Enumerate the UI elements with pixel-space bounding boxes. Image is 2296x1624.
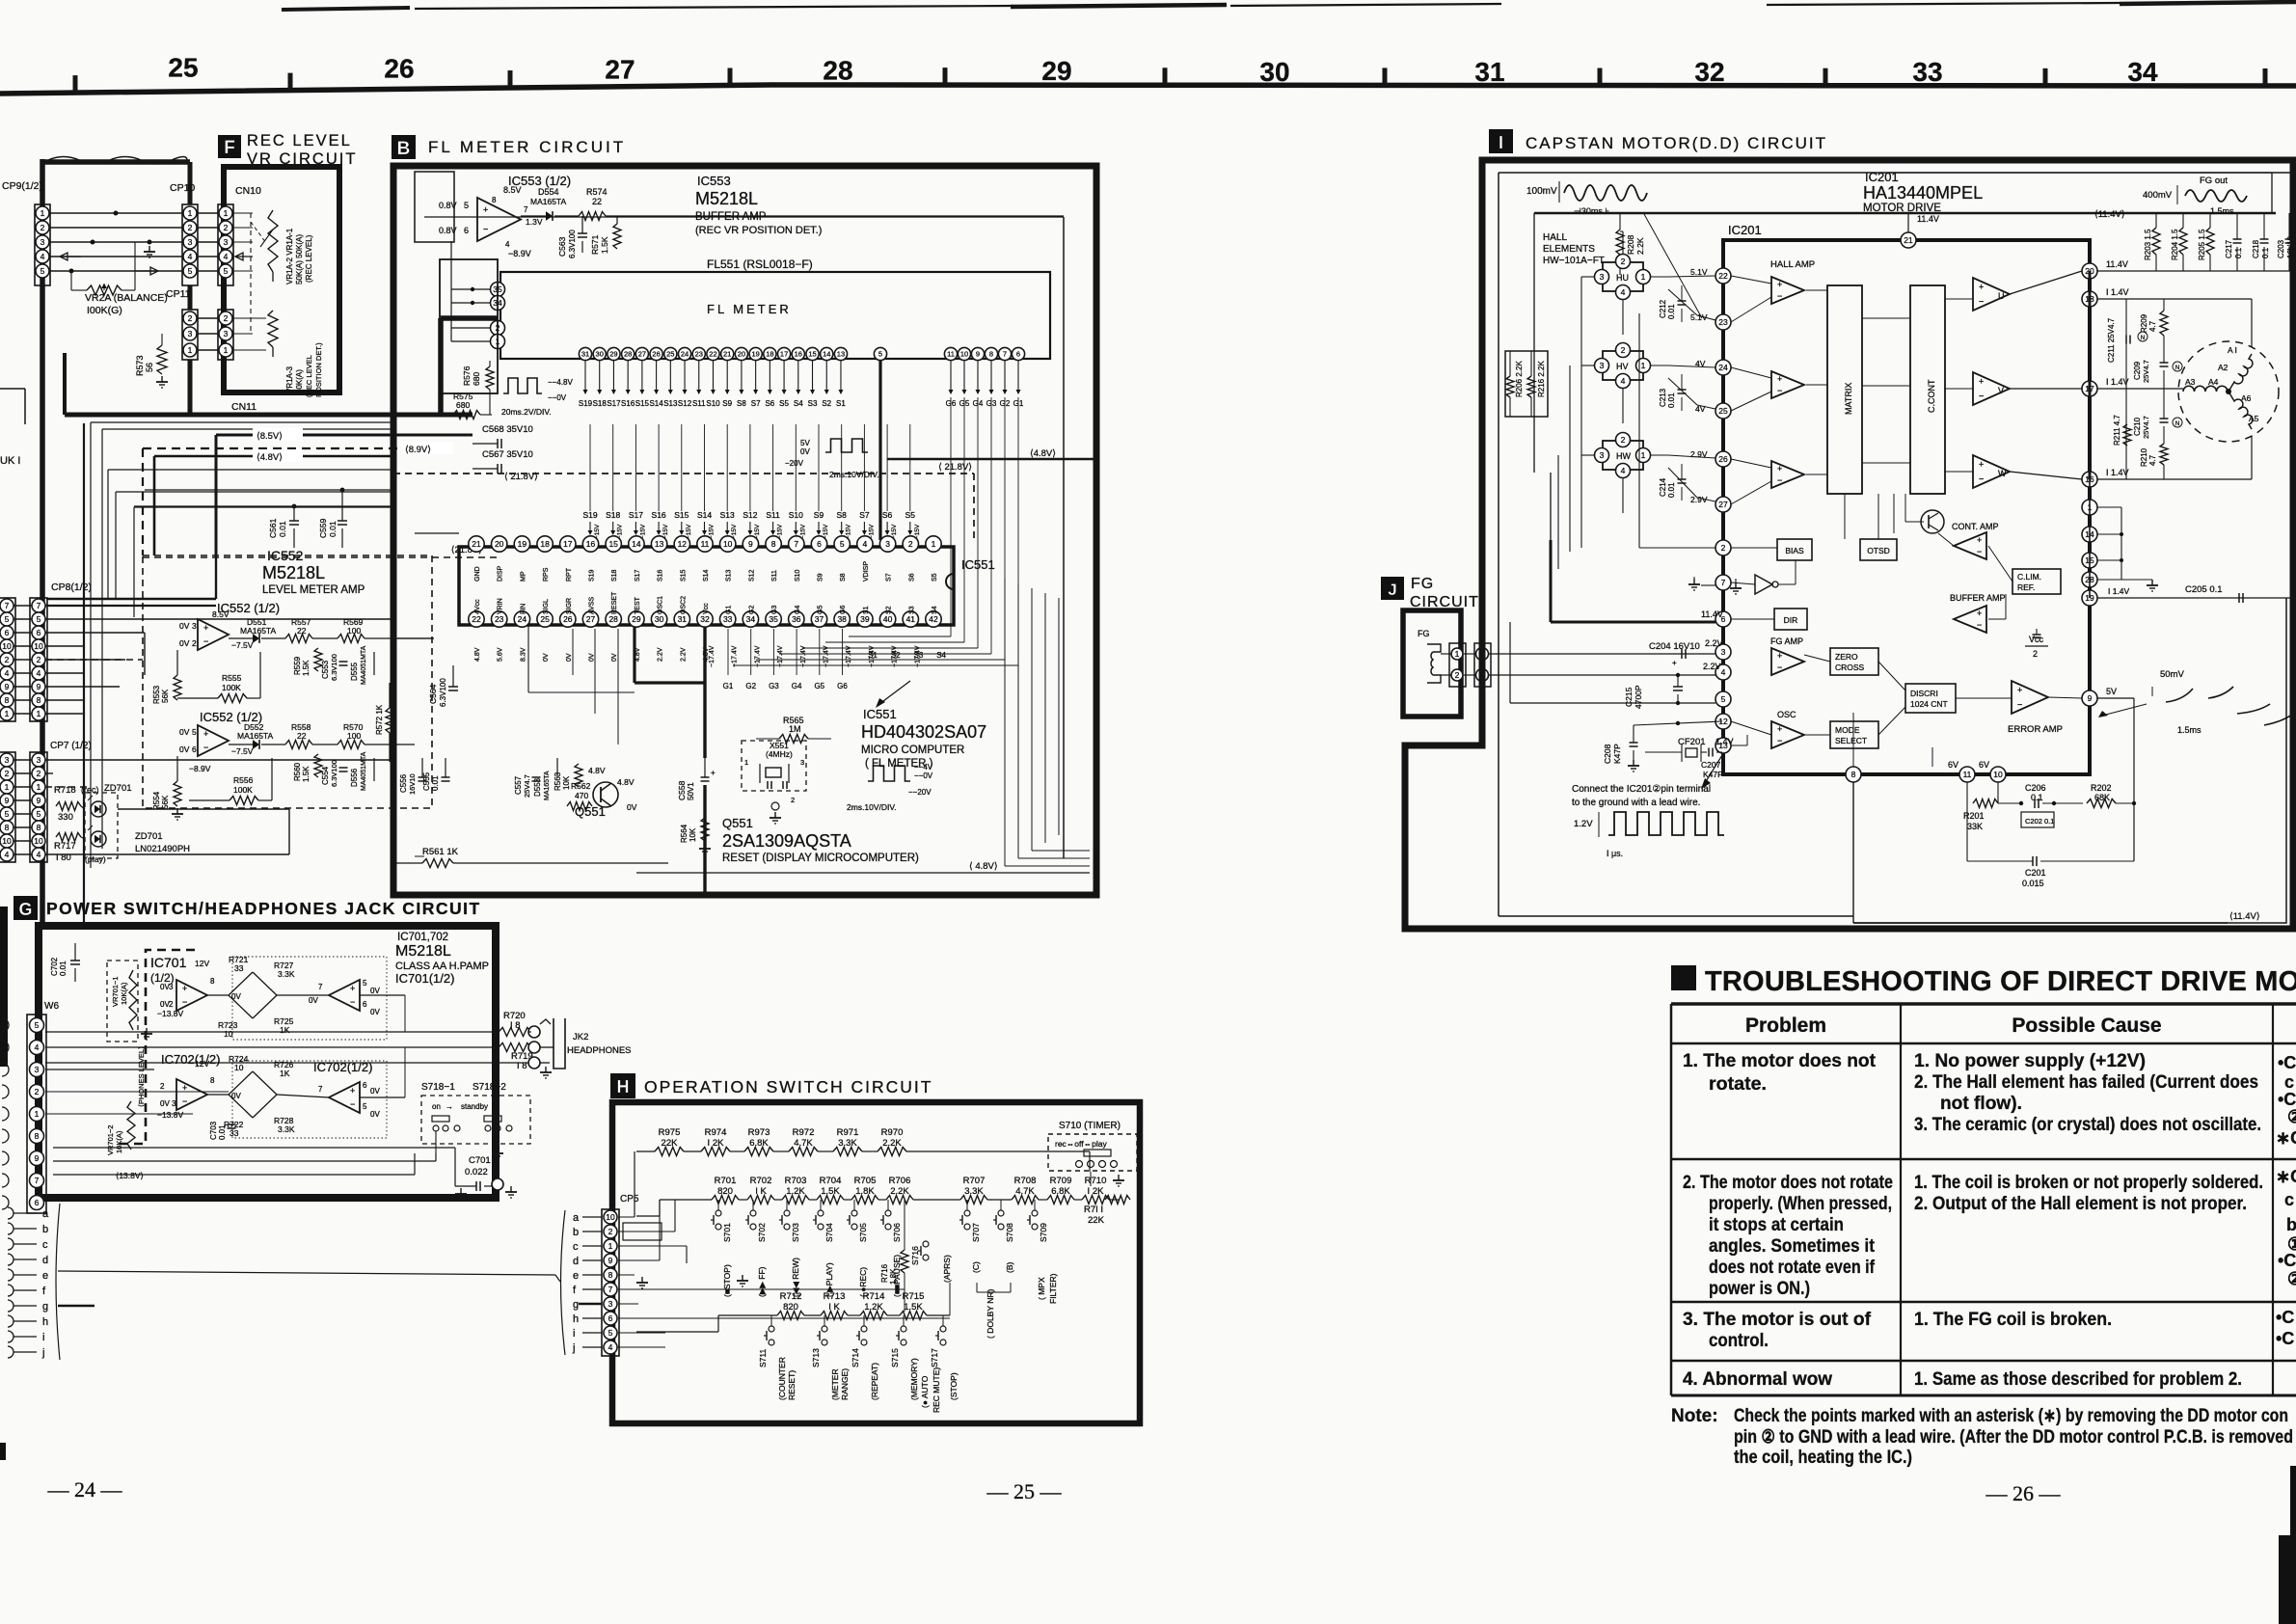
svg-text:C201: C201 <box>2025 868 2046 878</box>
svg-text:2: 2 <box>1455 670 1460 680</box>
capacitor C201 <box>2032 856 2034 866</box>
svg-text:(REC LEVEL): (REC LEVEL) <box>305 234 313 283</box>
svg-text:400mV: 400mV <box>2143 190 2173 201</box>
svg-text:+: + <box>1979 283 1984 292</box>
svg-text:5.6V: 5.6V <box>498 647 504 662</box>
section label G <box>14 896 38 920</box>
svg-text:+: + <box>1777 651 1782 661</box>
svg-text:(4MHz): (4MHz) <box>766 749 793 759</box>
IC551 top pin row <box>469 536 484 552</box>
svg-text:S16: S16 <box>621 399 635 408</box>
svg-text:6: 6 <box>1016 350 1020 359</box>
svg-text:R974: R974 <box>705 1127 727 1138</box>
svg-text:2.2V: 2.2V <box>658 647 664 662</box>
svg-text:−15V: −15V <box>891 524 898 539</box>
svg-text:i: i <box>42 1332 44 1343</box>
wire second row <box>660 1199 712 1201</box>
svg-text:S7: S7 <box>886 573 893 582</box>
hall amp triangles <box>1771 277 1804 304</box>
svg-text:−: − <box>350 1099 355 1109</box>
svg-text:W6: W6 <box>44 1001 59 1012</box>
svg-text:0V: 0V <box>566 653 573 662</box>
thick bus 8.5V <box>216 434 473 437</box>
svg-text:31: 31 <box>1474 57 1504 87</box>
svg-text:•C: •C <box>2276 1308 2294 1327</box>
svg-text:+: + <box>1977 535 1982 545</box>
svg-text:R208: R208 <box>1626 234 1635 255</box>
svg-text:2ms.10V/DIV.: 2ms.10V/DIV. <box>847 802 897 812</box>
svg-text:R710: R710 <box>1085 1176 1107 1186</box>
wires G pins down <box>950 361 952 393</box>
svg-text:2: 2 <box>1721 543 1726 553</box>
svg-text:5: 5 <box>35 1020 40 1030</box>
svg-text:21: 21 <box>723 350 731 359</box>
op-amp IC701a <box>176 980 207 1011</box>
wire pin7 gnd <box>1693 579 1695 584</box>
section label B <box>392 135 416 159</box>
DIR box <box>1774 609 1807 630</box>
svg-text:25V4.7: 25V4.7 <box>523 774 531 798</box>
svg-text:6: 6 <box>464 226 469 235</box>
svg-text:g: g <box>42 1301 48 1313</box>
svg-text:−: − <box>483 224 488 233</box>
svg-text:S711: S711 <box>758 1349 768 1367</box>
svg-text:C556: C556 <box>399 773 408 793</box>
svg-text:C217: C217 <box>2225 239 2233 258</box>
svg-text:G1: G1 <box>723 682 734 690</box>
svg-text:10K(A): 10K(A) <box>120 982 128 1005</box>
svg-text:10K: 10K <box>689 827 697 842</box>
arrow to pin13 <box>1705 755 1722 783</box>
wires motor <box>2251 299 2253 347</box>
troubleshooting heading <box>1671 965 1696 990</box>
svg-text:S6: S6 <box>908 573 915 582</box>
svg-text:−: − <box>1777 475 1782 485</box>
svg-text:e: e <box>573 1270 579 1282</box>
svg-text:0V: 0V <box>627 802 637 812</box>
connector W6 circles <box>27 1015 46 1213</box>
svg-text:G6: G6 <box>837 682 848 690</box>
MODE SELECT box <box>1830 721 1878 748</box>
dashed line CN10-VR <box>250 213 252 333</box>
svg-text:C211 25V4.7: C211 25V4.7 <box>2107 317 2116 363</box>
svg-text:56: 56 <box>145 363 154 372</box>
svg-text:(■STOP): (■STOP) <box>722 1264 732 1297</box>
svg-text:CP9(1/2): CP9(1/2) <box>2 180 42 192</box>
I box inner thin border <box>1499 173 2296 923</box>
svg-text:7: 7 <box>5 601 10 610</box>
svg-text:2: 2 <box>192 638 197 648</box>
svg-text:FG: FG <box>1418 629 1430 638</box>
svg-text:1.4V: 1.4V <box>1715 737 1734 746</box>
svg-text:RPT: RPT <box>566 567 573 582</box>
svg-text:4.7: 4.7 <box>2148 454 2157 466</box>
svg-text:(REPEAT): (REPEAT) <box>870 1363 879 1400</box>
svg-text:20: 20 <box>495 539 504 549</box>
svg-text:5: 5 <box>5 614 10 624</box>
svg-text:50K(A) 50K(A): 50K(A) 50K(A) <box>295 234 304 284</box>
svg-text:−15V: −15V <box>709 524 716 539</box>
svg-text:6: 6 <box>37 628 41 637</box>
svg-text:33: 33 <box>723 614 733 624</box>
svg-text:50V1: 50V1 <box>687 782 695 800</box>
svg-text:2. The motor does not rotate: 2. The motor does not rotate <box>1683 1173 1893 1193</box>
svg-text:13: 13 <box>655 539 664 549</box>
svg-text:CP8(1/2): CP8(1/2) <box>51 582 92 593</box>
svg-text:HW: HW <box>1616 451 1631 461</box>
svg-text:1: 1 <box>224 208 229 218</box>
svg-text:UK I: UK I <box>0 455 20 467</box>
svg-text:8.3V: 8.3V <box>520 647 527 662</box>
svg-text:14: 14 <box>823 350 830 359</box>
svg-text:S702: S702 <box>757 1223 767 1242</box>
svg-text:−17.4V: −17.4V <box>732 645 739 667</box>
arrow left row4 <box>60 253 81 260</box>
svg-text:C209: C209 <box>2133 361 2142 380</box>
svg-text:1.5K: 1.5K <box>600 236 609 254</box>
svg-text:1: 1 <box>932 539 936 549</box>
svg-text:R201: R201 <box>1963 811 1985 821</box>
ZERO CROSS box <box>1830 648 1878 675</box>
connector FG outer <box>1474 643 1491 687</box>
dotted loop IC701 <box>232 957 387 1040</box>
transistor Q551 <box>593 782 618 807</box>
sub rect left of FL <box>440 259 498 393</box>
svg-text:1: 1 <box>5 782 10 792</box>
svg-text:7: 7 <box>1003 350 1007 359</box>
svg-text:S11: S11 <box>766 510 780 520</box>
svg-text:VRIN: VRIN <box>498 598 504 614</box>
svg-text:S7: S7 <box>751 399 761 408</box>
svg-text:HW−101A−FT: HW−101A−FT <box>1543 256 1605 266</box>
svg-text:30: 30 <box>655 614 664 624</box>
svg-text:3: 3 <box>1600 361 1605 370</box>
svg-text:24: 24 <box>1718 363 1728 372</box>
svg-text:A4: A4 <box>2208 377 2219 387</box>
svg-text:LEVEL METER AMP: LEVEL METER AMP <box>262 584 365 596</box>
svg-text:2: 2 <box>608 1227 613 1236</box>
svg-text:10: 10 <box>960 350 968 359</box>
svg-text:7: 7 <box>37 601 41 610</box>
wavy top line <box>42 159 190 165</box>
svg-text:−15V: −15V <box>754 524 761 539</box>
svg-text:(● AUTO: (● AUTO <box>920 1375 930 1408</box>
svg-text:0V: 0V <box>611 653 618 662</box>
svg-text:R564: R564 <box>680 824 689 843</box>
svg-text:VR701−1: VR701−1 <box>111 977 120 1007</box>
svg-text:(COUNTER: (COUNTER <box>777 1357 787 1400</box>
svg-text:3: 3 <box>41 237 45 247</box>
svg-text:15: 15 <box>808 350 816 359</box>
svg-text:W: W <box>1998 469 2007 478</box>
svg-text:31: 31 <box>678 614 688 624</box>
svg-text:R210: R210 <box>2140 447 2148 467</box>
motor windings <box>2178 341 2279 442</box>
svg-text:( DOLBY NR): ( DOLBY NR) <box>986 1289 995 1339</box>
svg-text:angles. Sometimes it: angles. Sometimes it <box>1709 1236 1876 1257</box>
thick bus D <box>441 315 498 321</box>
svg-text:VR1A-2 VR1A-1: VR1A-2 VR1A-1 <box>285 228 294 284</box>
svg-text:−17.4V: −17.4V <box>777 645 784 667</box>
svg-text:(pIay): (pIay) <box>85 854 106 864</box>
black blob page edge <box>0 1443 6 1460</box>
IC201 right pins <box>2082 263 2097 279</box>
svg-text:15: 15 <box>608 539 618 549</box>
svg-text:OPERATION SWITCH CIRCUIT: OPERATION SWITCH CIRCUIT <box>644 1077 932 1096</box>
label 4.8V arrow <box>253 449 303 462</box>
svg-text:OTSD: OTSD <box>1867 546 1890 555</box>
svg-text:10: 10 <box>224 1029 233 1039</box>
svg-text:40: 40 <box>883 614 893 624</box>
svg-text:C559: C559 <box>318 518 328 538</box>
svg-text:−17.4V: −17.4V <box>709 645 716 667</box>
J box border <box>1403 610 1461 717</box>
partial box left edge <box>0 388 25 390</box>
svg-text:C702: C702 <box>50 957 59 976</box>
svg-text:5: 5 <box>1721 694 1726 704</box>
svg-text:IC553: IC553 <box>697 174 731 188</box>
svg-text:3: 3 <box>1600 450 1605 460</box>
svg-text:R715: R715 <box>903 1291 925 1302</box>
svg-text:S17: S17 <box>629 510 643 520</box>
svg-text:R972: R972 <box>793 1127 815 1138</box>
svg-text:17: 17 <box>563 539 573 549</box>
svg-text:−: − <box>1977 547 1982 556</box>
svg-text:18: 18 <box>540 539 550 549</box>
svg-text:FG AMP: FG AMP <box>1770 636 1803 646</box>
svg-text:8: 8 <box>5 823 10 832</box>
svg-text:R702: R702 <box>750 1176 772 1186</box>
svg-text:S8: S8 <box>836 510 847 520</box>
svg-text:R970: R970 <box>881 1127 904 1138</box>
MATRIX box <box>1827 285 1862 494</box>
svg-text:12V: 12V <box>195 959 209 968</box>
svg-text:2: 2 <box>188 313 193 323</box>
svg-text:FG out: FG out <box>2200 176 2228 186</box>
svg-text:the coil, heating the IC.): the coil, heating the IC.) <box>1734 1448 1912 1468</box>
svg-text:I 1.4V: I 1.4V <box>2106 468 2129 477</box>
svg-text:S18: S18 <box>593 399 608 408</box>
IC201 bottom pins <box>1846 767 1861 782</box>
svg-text:56K: 56K <box>161 795 170 809</box>
svg-text:100mV: 100mV <box>1526 186 1557 197</box>
svg-text:9: 9 <box>35 1153 40 1163</box>
svg-text:FL METER CIRCUIT: FL METER CIRCUIT <box>428 138 626 156</box>
BUFFER amp triangle <box>1954 606 1986 633</box>
svg-text:C205 0.1: C205 0.1 <box>2185 584 2223 595</box>
svg-text:−−0V: −−0V <box>548 393 567 402</box>
svg-text:c: c <box>42 1239 48 1251</box>
svg-text:F: F <box>224 138 235 158</box>
svg-text:4Vcc: 4Vcc <box>474 599 481 614</box>
svg-text:S17: S17 <box>607 399 621 408</box>
wires S pins down <box>584 361 586 393</box>
svg-text:13: 13 <box>837 350 845 359</box>
svg-text:28: 28 <box>823 55 852 85</box>
svg-text:HV: HV <box>1616 362 1629 371</box>
svg-text:−7.5V: −7.5V <box>231 640 254 650</box>
wire bottom 4.8V <box>636 872 1090 874</box>
svg-text:2: 2 <box>160 1082 165 1091</box>
svg-text:2.2V: 2.2V <box>1703 662 1721 671</box>
thick bus 4.8V <box>154 455 393 458</box>
svg-text:POSITION DET.): POSITION DET.) <box>314 342 323 397</box>
svg-text:2: 2 <box>37 655 41 664</box>
svg-text:1.2K: 1.2K <box>864 1302 883 1313</box>
svg-text:0V: 0V <box>179 638 190 648</box>
svg-text:1: 1 <box>224 345 229 355</box>
svg-text:11.4V: 11.4V <box>1917 214 1939 224</box>
svg-text:S11: S11 <box>771 570 778 582</box>
potentiometer VR1A-3 <box>268 311 278 347</box>
svg-text:21: 21 <box>472 539 481 549</box>
svg-text:S18: S18 <box>611 569 618 582</box>
svg-text:37: 37 <box>815 614 824 624</box>
svg-text:C567 35V10: C567 35V10 <box>482 449 533 460</box>
svg-text:2: 2 <box>169 1000 174 1009</box>
table outer left <box>1670 1004 1673 1395</box>
svg-text:CROSS: CROSS <box>1835 663 1865 672</box>
svg-text:S9: S9 <box>814 510 824 520</box>
CONT amp triangle <box>1954 532 1986 559</box>
svg-text:5: 5 <box>5 809 10 819</box>
wires B box misc <box>527 625 529 692</box>
wire FG3 <box>1510 702 1715 704</box>
svg-text:R571: R571 <box>590 234 600 255</box>
svg-text:31: 31 <box>581 350 589 359</box>
svg-text:0.01: 0.01 <box>328 521 338 537</box>
svg-text:C701: C701 <box>469 1155 491 1166</box>
svg-text:S9: S9 <box>818 573 824 582</box>
svg-text:HA13440MPEL: HA13440MPEL <box>1863 183 1983 203</box>
svg-text:−: − <box>350 997 355 1007</box>
edge circles CP8 <box>0 598 15 721</box>
svg-text:−: − <box>1777 291 1782 301</box>
svg-text:IC702(1/2): IC702(1/2) <box>313 1060 372 1074</box>
svg-text:28: 28 <box>608 614 618 624</box>
svg-text:S1: S1 <box>868 651 878 660</box>
svg-text:FIN: FIN <box>520 604 527 614</box>
svg-text:1: 1 <box>1455 649 1460 659</box>
svg-text:−17.4V: −17.4V <box>800 645 807 667</box>
svg-text:0V 3: 0V 3 <box>160 1099 176 1108</box>
thick bus B <box>65 413 473 418</box>
wire rows mid <box>46 598 216 600</box>
svg-text:S6: S6 <box>882 510 893 520</box>
svg-text:11: 11 <box>701 539 710 549</box>
svg-text:rec⇔off⇔play: rec⇔off⇔play <box>1055 1139 1107 1149</box>
svg-text:S8: S8 <box>737 399 746 408</box>
svg-text:IC701,702: IC701,702 <box>397 932 448 943</box>
wire pin5 down <box>878 361 881 540</box>
svg-text:6.3V100: 6.3V100 <box>568 230 577 258</box>
svg-text:J: J <box>1388 581 1396 599</box>
svg-text:1: 1 <box>37 709 41 718</box>
svg-text:2.2V: 2.2V <box>680 647 687 662</box>
svg-text:Check the points marked with a: Check the points marked with an asterisk… <box>1734 1406 2288 1426</box>
FL meter pin 5 <box>874 347 886 360</box>
svg-text:R973: R973 <box>748 1127 770 1138</box>
svg-text:−−4.8V: −−4.8V <box>548 378 573 387</box>
svg-text:R704: R704 <box>820 1176 842 1186</box>
svg-text:Q551: Q551 <box>722 816 753 830</box>
svg-text:10: 10 <box>1993 770 2003 779</box>
svg-text:⟨4.8V⟩: ⟨4.8V⟩ <box>1030 448 1056 459</box>
svg-text:−15V: −15V <box>846 524 852 539</box>
svg-text:−13.8V: −13.8V <box>157 1110 184 1120</box>
svg-text:S13: S13 <box>720 510 735 520</box>
svg-text:— 24 —: — 24 — <box>47 1477 123 1502</box>
svg-text:38: 38 <box>837 614 847 624</box>
svg-text:Note:: Note: <box>1671 1406 1718 1426</box>
svg-text:41: 41 <box>906 614 916 624</box>
svg-text:VDISP: VDISP <box>863 561 870 582</box>
svg-text:4: 4 <box>5 850 10 859</box>
svg-text:S2: S2 <box>822 399 831 408</box>
svg-text:3. The ceramic (or crystal) d: 3. The ceramic (or crystal) does not osc… <box>1914 1115 2261 1135</box>
svg-text:Problem: Problem <box>1745 1015 1826 1037</box>
svg-text:20: 20 <box>738 350 745 359</box>
svg-text:∗C: ∗C <box>2276 1167 2296 1186</box>
svg-text:4: 4 <box>188 252 193 261</box>
svg-text:11: 11 <box>1963 770 1972 779</box>
svg-text:ZD701: ZD701 <box>104 783 132 794</box>
svg-text:5: 5 <box>878 350 882 359</box>
wire pin19 <box>2097 597 2296 599</box>
svg-text:N: N <box>2175 421 2179 427</box>
svg-text:4700P: 4700P <box>1634 685 1643 709</box>
svg-text:+: + <box>2017 686 2022 695</box>
svg-text:G5: G5 <box>814 682 824 690</box>
svg-text:22K: 22K <box>1088 1215 1105 1226</box>
svg-text:I 1.4V: I 1.4V <box>2106 377 2129 387</box>
svg-text:c: c <box>573 1241 579 1253</box>
svg-text:K47P: K47P <box>1703 770 1723 779</box>
svg-text:1: 1 <box>1641 450 1646 460</box>
svg-text:25: 25 <box>540 614 550 624</box>
inverter <box>1755 575 1772 594</box>
svg-text:G5: G5 <box>818 606 824 614</box>
dashed bus 8.9V <box>143 447 453 449</box>
svg-text:RESET): RESET) <box>787 1370 797 1400</box>
svg-text:G3: G3 <box>769 682 779 690</box>
svg-text:7: 7 <box>608 1285 613 1294</box>
svg-text:−: − <box>1977 620 1982 630</box>
svg-text:MA165TA: MA165TA <box>530 197 566 206</box>
wire 11.4V thick <box>1551 621 1715 624</box>
svg-text:30: 30 <box>596 350 604 359</box>
wire CP11-CN11 <box>198 317 219 319</box>
svg-text:27: 27 <box>586 614 596 624</box>
svg-text:I 2K: I 2K <box>708 1138 725 1149</box>
svg-text:4: 4 <box>35 1042 40 1052</box>
thick vertical CP10 <box>188 162 193 204</box>
svg-text:330: 330 <box>58 812 73 823</box>
svg-text:3: 3 <box>5 755 10 765</box>
svg-text:9: 9 <box>748 539 753 549</box>
svg-text:−15V: −15V <box>868 524 875 539</box>
svg-text:2.2V: 2.2V <box>1705 638 1723 648</box>
svg-text:5V: 5V <box>2106 687 2117 696</box>
ruler tick marks <box>73 75 78 93</box>
FL meter left pins <box>491 283 505 297</box>
svg-text:R713: R713 <box>824 1291 846 1302</box>
svg-text:G: G <box>18 900 32 919</box>
svg-text:4.7: 4.7 <box>2148 320 2157 332</box>
BIAS box <box>1777 539 1812 560</box>
svg-text:1.2K: 1.2K <box>786 1186 805 1197</box>
svg-text:34: 34 <box>746 614 756 624</box>
